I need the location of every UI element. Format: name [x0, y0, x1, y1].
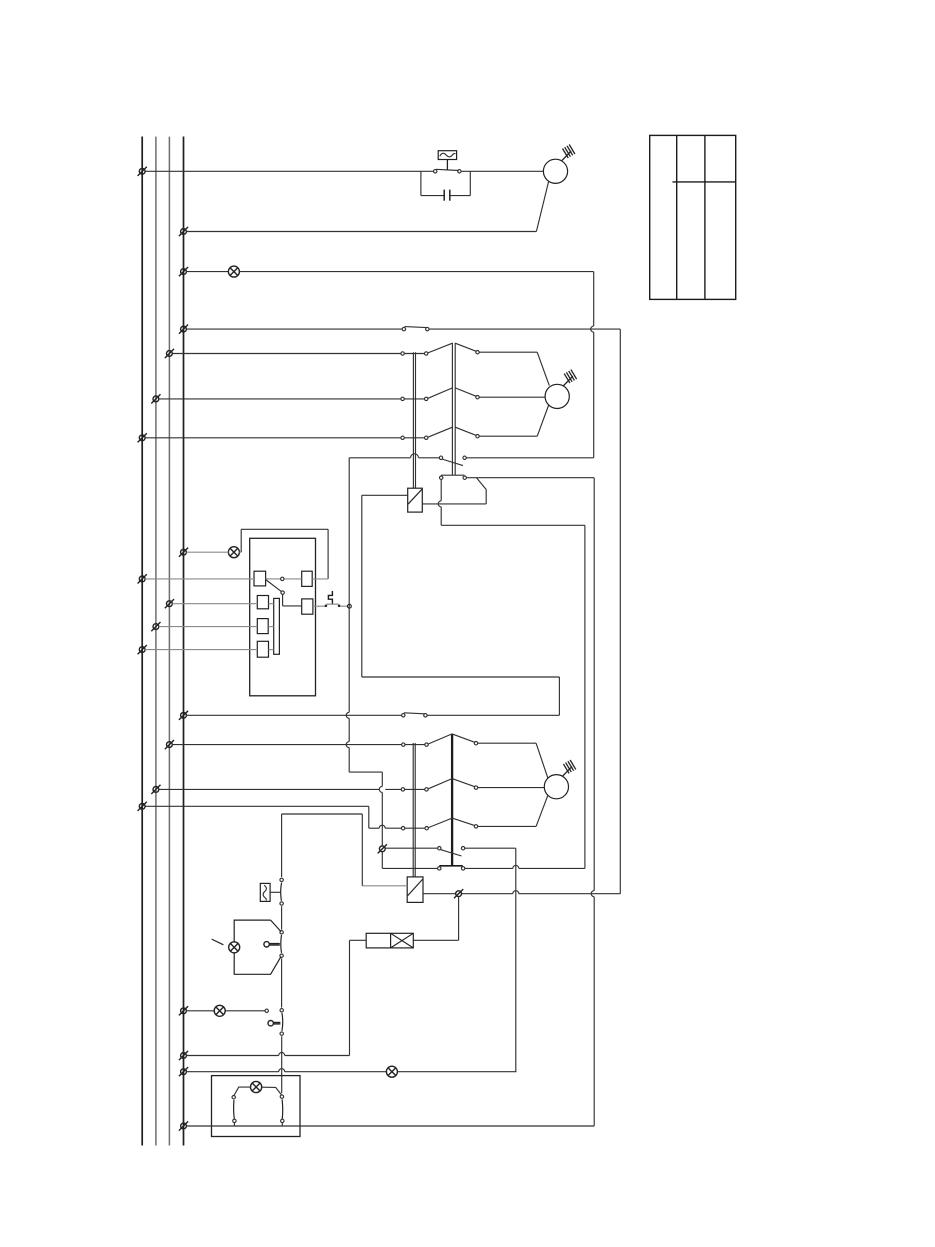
- control unit U1 enclosure: [250, 538, 316, 696]
- terminal T2: [179, 227, 188, 236]
- terminal T16: [138, 802, 147, 811]
- M2 pole row 2: [159, 779, 545, 792]
- terminal T21: [378, 844, 387, 853]
- relay coil K1: [408, 488, 423, 512]
- lamp H6: [251, 1081, 262, 1092]
- control unit element B5: [257, 619, 268, 634]
- wire valve left lead: [350, 940, 367, 1055]
- bottom switch box: [212, 1076, 301, 1137]
- wire T21 to M2 row5: [382, 852, 437, 869]
- lamp H1: [228, 266, 239, 277]
- wire B3 lead out: [313, 605, 348, 607]
- wire M1 holding drop: [438, 479, 585, 525]
- bus line L4: [183, 137, 185, 1146]
- wire B4 row: [172, 603, 273, 605]
- junction circle S4 to drop: [348, 604, 352, 608]
- bus line L2: [155, 137, 157, 1146]
- wire lamp H2 row: [186, 551, 241, 553]
- M1 pole row 2: [159, 388, 545, 401]
- thermostat switch chain: [280, 878, 283, 1007]
- bus line L1: [141, 137, 143, 1146]
- leader tick: [212, 939, 224, 945]
- solenoid valve Y1: [366, 933, 413, 948]
- terminal T8: [179, 548, 188, 557]
- lamp H3: [229, 942, 240, 953]
- motor M1: [545, 384, 569, 408]
- wire U1 changeover to B3: [283, 594, 302, 606]
- terminal T3: [179, 267, 188, 276]
- thermostat actuator: [264, 942, 280, 947]
- M2 aux contact row 4: [385, 847, 516, 857]
- wire row G: [186, 1053, 349, 1056]
- pushbutton S4: [325, 591, 341, 607]
- thermal protector F1: [438, 151, 456, 170]
- control unit element B6: [257, 641, 268, 657]
- control unit element B2: [302, 571, 313, 586]
- M1 pole row 1: [172, 343, 549, 385]
- pushbutton S5 contact: [265, 1009, 283, 1036]
- M1 pole row 3: [145, 405, 549, 439]
- wire row I: [186, 1125, 594, 1127]
- wire row A: [145, 170, 543, 172]
- wire M1 aux drop x349: [346, 458, 382, 772]
- wire row E: [186, 714, 559, 716]
- wire K2 right lead: [423, 891, 620, 894]
- terminal T7: [138, 433, 147, 442]
- wire K2 feed from thermostat: [282, 814, 363, 886]
- thermostat box: [234, 920, 281, 974]
- relay coil K2: [407, 877, 423, 903]
- wire T22 to valve: [413, 897, 458, 941]
- wire vertical x515.8: [515, 848, 517, 1071]
- wire vertical x584.9: [584, 525, 586, 868]
- bus line L3: [168, 137, 170, 1146]
- ground G1: [563, 370, 576, 386]
- wire vertical right x620: [619, 329, 621, 894]
- contact circles U1: [281, 577, 285, 594]
- wire row F: [186, 1010, 265, 1012]
- M2 pole row 1: [172, 734, 548, 778]
- title block table: [650, 135, 736, 299]
- terminal T13: [179, 711, 188, 720]
- terminal T18: [179, 1051, 188, 1060]
- wire vertical rowC to row4 with hop over rowD: [591, 272, 594, 458]
- selector blade U1: [266, 580, 282, 592]
- thermal protector F2: [260, 883, 281, 901]
- control unit contact bar: [274, 598, 280, 654]
- motor M2: [544, 775, 568, 799]
- contact S2 circles: [402, 327, 429, 330]
- terminal T1: [138, 167, 147, 176]
- wire M3 to row B: [536, 182, 548, 232]
- capacitor C1 plates: [444, 190, 450, 201]
- terminal T9: [138, 574, 147, 583]
- wire K1 left lead: [362, 494, 408, 496]
- wire B6 row: [145, 649, 274, 651]
- control unit element B1: [254, 571, 266, 586]
- ground G2: [562, 760, 575, 776]
- capacitor C1 parallel box: [421, 171, 470, 195]
- terminal T6: [151, 394, 160, 403]
- terminal T15: [151, 785, 160, 794]
- wire K2 left lead: [362, 885, 407, 887]
- ground G3: [562, 145, 575, 161]
- M2 pole row 3: [369, 795, 548, 830]
- lamp H5: [386, 1066, 397, 1077]
- M2 holding contact row 5: [438, 865, 585, 870]
- motor M2 main bar: [451, 734, 453, 866]
- contact S1 blade: [436, 169, 459, 170]
- control unit element B3: [302, 599, 313, 614]
- control unit element B4: [257, 596, 268, 609]
- wire B1 row: [145, 578, 328, 580]
- wire row B: [186, 231, 536, 233]
- M1 aux contact row 4: [349, 454, 594, 466]
- M1 holding contact row 5: [422, 475, 594, 504]
- bottom switch contacts: [232, 1095, 284, 1126]
- wire row C: [186, 271, 593, 273]
- terminal T14: [165, 740, 174, 749]
- wire vertical x594.2: [591, 478, 594, 1126]
- pushbutton S5 actuator: [268, 1021, 280, 1026]
- terminal T10: [165, 599, 174, 608]
- wire drop x382 to terminal: [379, 772, 382, 846]
- terminal T17: [179, 1006, 188, 1015]
- motor M3: [543, 159, 567, 183]
- contact S1 circles: [434, 170, 462, 173]
- terminal T12: [138, 645, 147, 654]
- terminal T4: [179, 325, 188, 334]
- motor M1 main bar: [452, 343, 455, 475]
- motor M1 switch link bar: [413, 352, 415, 488]
- wire M2 row3 feed: [145, 806, 369, 828]
- lamp H6 legs: [234, 1087, 282, 1095]
- terminal T22: [454, 889, 463, 898]
- terminal T11: [151, 622, 160, 631]
- contact S3 circles: [402, 713, 428, 717]
- wire B5 row: [159, 626, 274, 628]
- wire row H: [186, 1069, 516, 1072]
- contact S2 blade: [405, 327, 427, 328]
- lamp H2: [228, 547, 239, 558]
- wire row D: [186, 328, 620, 330]
- wire lamp H2 loop to control unit: [241, 529, 328, 579]
- lamp H4: [214, 1005, 225, 1016]
- terminal T5: [165, 349, 174, 358]
- motor M2 switch link bar: [413, 743, 415, 877]
- terminal T20: [179, 1121, 188, 1130]
- wire chain S5 to bottom box: [281, 1036, 283, 1093]
- terminal T19: [179, 1067, 188, 1076]
- wire K1 feed loop: [362, 495, 560, 715]
